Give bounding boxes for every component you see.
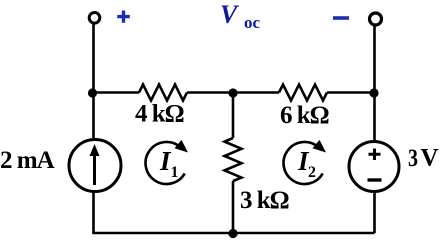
polarity minus for Voc (blue) [333,16,349,20]
resistor 3 kOhm [225,138,242,181]
svg-text:3: 3 [408,145,418,172]
node dot: top-left junction [88,88,97,97]
wire: middle vertical upper (node to 3k resistor) [232,93,235,139]
wire: top horizontal left segment [94,91,140,94]
wire: middle vertical lower (3k resistor to bottom node) [232,181,235,233]
svg-text:4 kΩ: 4 kΩ [135,101,184,128]
voltage source 3 V (circle) [349,142,399,192]
terminal a (top-left open circle) [89,12,100,23]
wire: right vertical from terminal to 3V source [373,26,376,142]
svg-text:V: V [421,145,439,172]
node dot: top-right junction [369,88,378,97]
plus sign inside source [369,149,381,161]
polarity plus for Voc (blue) [117,11,130,23]
svg-text:2 mA: 2 mA [0,147,55,174]
wire: left vertical from current source to bottom-left corner [92,192,95,234]
svg-text:V: V [220,0,240,29]
resistor 4 kOhm [139,85,187,101]
resistor 6 kOhm [279,85,327,101]
wire: top horizontal right segment [327,91,375,94]
svg-text:oc: oc [244,13,261,32]
wire: right vertical from 3V source to bottom-right corner [373,192,376,234]
node dot: top-middle junction [228,88,237,97]
current source arrow [93,153,96,185]
wire: top horizontal middle segment [187,91,279,94]
wire: bottom horizontal [92,232,374,235]
svg-text:2: 2 [308,164,316,181]
mesh current I1 arrow [146,142,185,184]
svg-text:6 kΩ: 6 kΩ [280,102,329,129]
svg-text:1: 1 [171,164,179,181]
minus sign inside source [368,178,382,181]
node dot: bottom-middle junction [228,229,237,238]
mesh current I2 arrow [284,142,323,184]
current source 2 mA (circle) [69,140,121,192]
terminal b (top-right open circle) [370,13,382,25]
svg-text:3 kΩ: 3 kΩ [240,187,289,214]
wire: left vertical from top terminal to current source [92,24,95,140]
